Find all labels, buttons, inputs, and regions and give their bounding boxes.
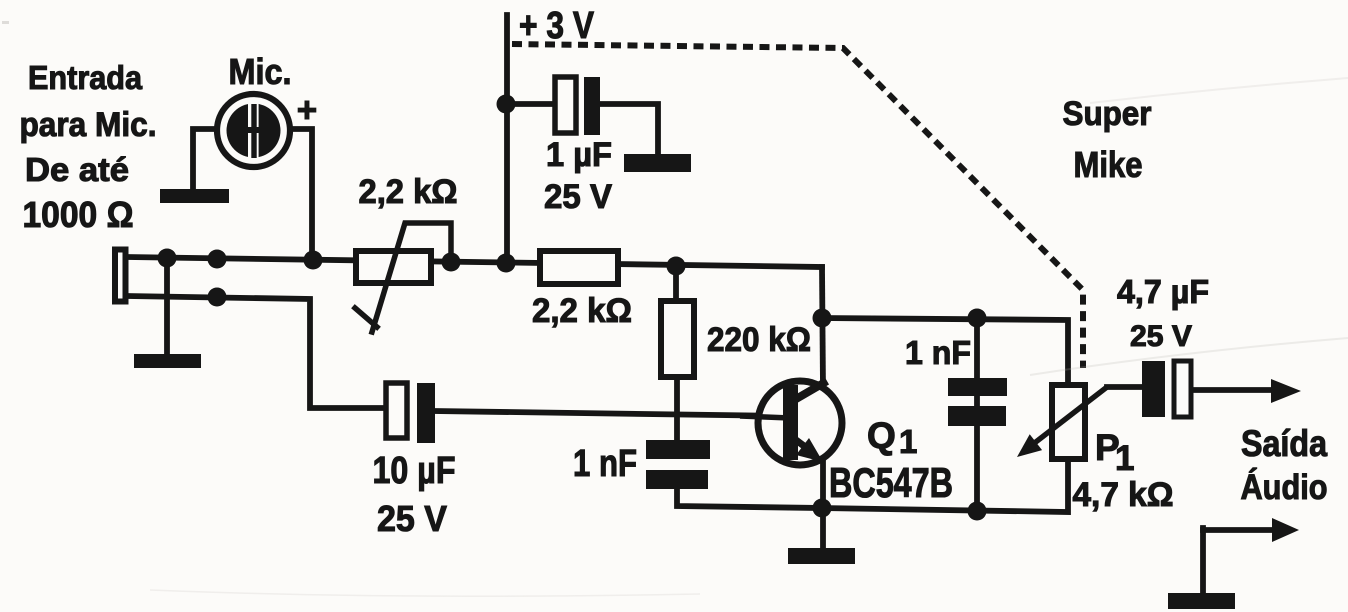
svg-text:25 V: 25 V bbox=[544, 178, 612, 216]
output arrow head bbox=[1271, 379, 1301, 403]
node dot trimmer wiper bbox=[442, 253, 461, 272]
node dot rail crossing bbox=[497, 254, 516, 273]
svg-text:Mic.: Mic. bbox=[229, 51, 292, 92]
capacitor 1nF right plates bbox=[948, 378, 1007, 426]
connector J1 input bbox=[115, 250, 126, 302]
svg-text:Entrada: Entrada bbox=[28, 59, 143, 96]
bottom right arrow head bbox=[1272, 518, 1299, 542]
svg-text:+: + bbox=[297, 91, 317, 130]
svg-text:1: 1 bbox=[899, 423, 917, 460]
wire input shield to ground bbox=[164, 258, 170, 354]
ground below emitter bbox=[788, 548, 855, 564]
label P1 bbox=[1095, 427, 1134, 478]
svg-text:De até: De até bbox=[25, 151, 129, 188]
svg-text:Q: Q bbox=[867, 415, 896, 456]
potentiometer P1 body bbox=[1052, 385, 1085, 459]
svg-text:25 V: 25 V bbox=[1130, 320, 1192, 353]
wire bottom right arrow line bbox=[1203, 527, 1275, 533]
node dot 220k branch bbox=[667, 257, 686, 276]
resistor 220 kOhm body bbox=[661, 301, 694, 377]
ground below input bbox=[134, 354, 201, 368]
wire 1uF branch left bbox=[507, 101, 555, 107]
wire 1uF right to ground bbox=[600, 104, 658, 156]
transistor Q1 bbox=[740, 381, 842, 465]
wire trimmer wiper bbox=[355, 223, 451, 332]
wire collector node to P1 top bbox=[822, 318, 1068, 385]
wire P1 wiper to cap bbox=[1107, 384, 1142, 390]
wire bottom input line bbox=[126, 296, 386, 408]
wire bottom right to ground bbox=[1200, 528, 1206, 595]
wire bottom rail right bbox=[822, 459, 1068, 512]
wire mic right down to signal bbox=[289, 129, 312, 259]
resistor trimmer 2,2 kOhm body bbox=[356, 251, 431, 283]
svg-text:1 µF: 1 µF bbox=[546, 136, 612, 174]
node dot 1nF right bottom bbox=[968, 502, 987, 521]
wire emitter to ground bbox=[820, 458, 826, 549]
wire trimmer screw bar bbox=[355, 308, 377, 327]
svg-text:BC547B: BC547B bbox=[829, 459, 953, 506]
wire 220k branch top bbox=[673, 266, 679, 301]
wire output arrow line bbox=[1193, 387, 1282, 393]
node dot mic junction bbox=[304, 251, 323, 270]
wire 10uF to base bbox=[435, 411, 787, 416]
wire 1nF right vertical bbox=[974, 318, 980, 512]
svg-text:10 µF: 10 µF bbox=[373, 450, 456, 492]
capacitor 10uF plates bbox=[386, 383, 435, 443]
potentiometer P1 wiper arrow bbox=[1017, 387, 1107, 457]
ground bottom right bbox=[1168, 593, 1235, 609]
svg-text:2,2 kΩ: 2,2 kΩ bbox=[359, 173, 458, 211]
label Q1 bbox=[867, 415, 917, 460]
svg-text:+ 3 V: + 3 V bbox=[519, 5, 595, 47]
node dot top wire 2 bbox=[208, 250, 227, 269]
wire collector vertical bbox=[822, 267, 823, 388]
svg-text:25 V: 25 V bbox=[377, 498, 447, 539]
svg-text:Áudio: Áudio bbox=[1241, 467, 1328, 507]
node dot emitter bbox=[813, 499, 832, 518]
wire top signal line bbox=[126, 257, 822, 267]
svg-text:1 nF: 1 nF bbox=[573, 443, 637, 485]
node dot collector bbox=[813, 309, 832, 328]
svg-text:Saída: Saída bbox=[1241, 423, 1327, 464]
node dot 1uF branch bbox=[497, 95, 516, 114]
wire dashed supply boundary bbox=[512, 44, 1083, 368]
capacitor 4,7uF plates bbox=[1142, 361, 1191, 417]
node dot 1nF right top bbox=[968, 309, 987, 328]
node dot top wire 1 bbox=[158, 249, 177, 268]
wire mic left to ground bbox=[193, 129, 214, 187]
wire 1nF left bottom bbox=[677, 488, 822, 508]
svg-text:1 nF: 1 nF bbox=[905, 334, 971, 371]
svg-text:Mike: Mike bbox=[1074, 144, 1143, 185]
ground below mic bbox=[160, 189, 229, 203]
resistor 2,2 kOhm body bbox=[540, 251, 618, 284]
microphone Mic. symbol bbox=[217, 94, 290, 167]
capacitor 1nF left plates bbox=[646, 440, 710, 489]
svg-text:220 kΩ: 220 kΩ bbox=[707, 321, 811, 359]
wire +3V rail bbox=[504, 15, 510, 263]
svg-text:4,7 µF: 4,7 µF bbox=[1117, 273, 1209, 310]
svg-text:1: 1 bbox=[1115, 439, 1134, 478]
svg-text:1000 Ω: 1000 Ω bbox=[23, 194, 134, 235]
wire 220k to 1nF bbox=[674, 377, 680, 441]
svg-text:para Mic.: para Mic. bbox=[20, 106, 157, 144]
node dot bottom wire bbox=[208, 288, 227, 307]
ground below 1uF bbox=[624, 154, 691, 172]
capacitor 1uF plates bbox=[555, 77, 600, 135]
svg-text:4,7 kΩ: 4,7 kΩ bbox=[1073, 476, 1174, 514]
svg-text:2,2 kΩ: 2,2 kΩ bbox=[532, 292, 632, 330]
